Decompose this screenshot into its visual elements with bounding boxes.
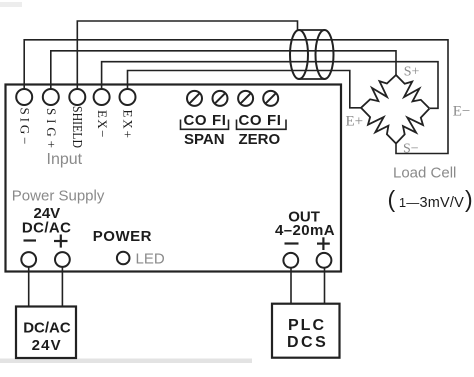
svg-text:LED: LED (136, 251, 165, 268)
svg-text:24V: 24V (32, 337, 62, 354)
pot ZERO fine (263, 91, 278, 106)
svg-text:CO FI: CO FI (184, 112, 227, 129)
power terminal plus (55, 252, 70, 267)
svg-text:ZERO: ZERO (239, 131, 281, 148)
input terminal SIG+ (43, 89, 59, 105)
wire power plus to DC/AC box (61, 267, 63, 307)
input terminal EX- (94, 89, 110, 105)
load cell bridge arm bottom-right (396, 109, 430, 144)
svg-text:4–20mA: 4–20mA (275, 222, 335, 239)
svg-text:DCS: DCS (287, 334, 328, 351)
svg-text:CO FI: CO FI (239, 112, 282, 129)
out terminal plus (317, 253, 332, 268)
input terminal SIG- (16, 89, 32, 105)
load cell bridge arm top-left (361, 75, 396, 108)
svg-text:Load Cell: Load Cell (393, 165, 456, 182)
scan artifact bottom band (0, 359, 252, 364)
wire SIG- to S- (24, 40, 448, 154)
bracket under CO FI ZERO (237, 120, 287, 130)
wire SIG+ to S+ (51, 51, 396, 97)
svg-text:S+: S+ (404, 65, 420, 80)
wire SHIELD to cable shield (77, 21, 297, 97)
PLC DCS box (272, 304, 340, 358)
LED indicator circle (117, 252, 130, 265)
power minus symbol (24, 239, 37, 241)
out terminal minus (283, 253, 298, 268)
scan artifact top-left (0, 2, 22, 7)
svg-text:EX+: EX+ (121, 110, 136, 139)
svg-text:E−: E− (453, 104, 471, 120)
svg-text:DC/AC: DC/AC (22, 219, 72, 236)
cable shield symbol (299, 29, 325, 31)
svg-text:SIG+: SIG+ (44, 108, 59, 148)
DC/AC 24V supply box (16, 307, 76, 359)
wire out minus to PLC (290, 268, 292, 304)
svg-text:Input: Input (47, 151, 83, 168)
svg-text:PLC: PLC (288, 317, 326, 334)
wire EX- to E- (102, 62, 438, 109)
svg-text:E+: E+ (346, 114, 364, 130)
svg-text:SHIELD: SHIELD (69, 106, 84, 148)
pot ZERO coarse (238, 91, 253, 106)
svg-text:POWER: POWER (93, 228, 152, 245)
out minus symbol (285, 242, 299, 244)
bracket under CO FI SPAN (181, 120, 229, 130)
pot SPAN fine (213, 91, 228, 106)
svg-text:DC/AC: DC/AC (23, 320, 71, 337)
out plus symbol (317, 237, 330, 250)
svg-text:SIG−: SIG− (18, 108, 33, 145)
wire out plus to PLC (324, 268, 326, 304)
power plus symbol (54, 235, 68, 248)
power terminal minus (21, 252, 36, 267)
input terminal SHIELD (69, 89, 85, 105)
wire power minus to DC/AC box (28, 267, 30, 307)
load cell bridge arm top-right (396, 75, 430, 109)
input terminal EX+ (120, 89, 136, 105)
transmitter main box (6, 85, 342, 272)
load cell bridge arm bottom-left (361, 108, 396, 144)
svg-text:S−: S− (403, 142, 419, 157)
svg-text:SPAN: SPAN (184, 131, 225, 148)
wire EX+ to E+ (128, 71, 362, 108)
pot SPAN coarse (187, 91, 202, 106)
svg-text:Power Supply: Power Supply (12, 188, 105, 205)
svg-text:EX−: EX− (95, 110, 110, 138)
